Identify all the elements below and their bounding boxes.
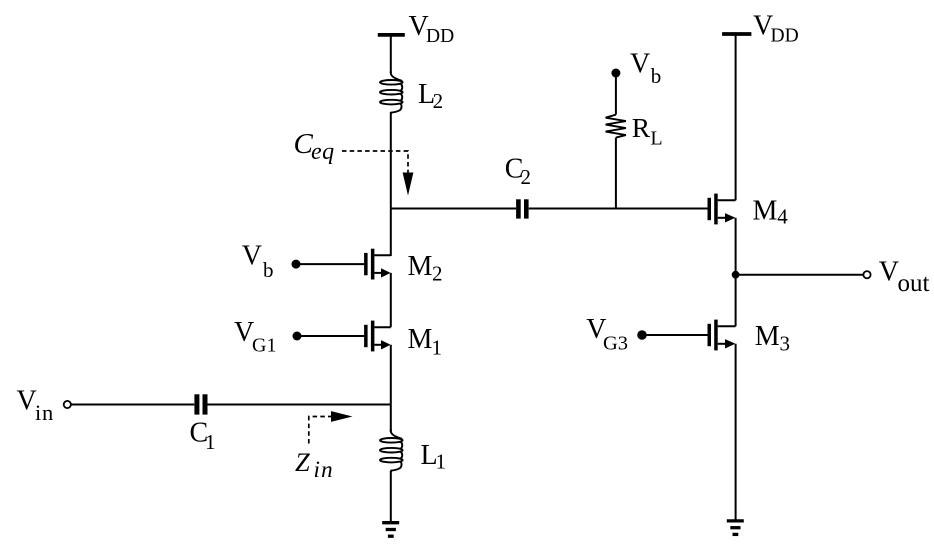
wire: [735, 275, 737, 327]
node Vout junction: [732, 271, 740, 279]
annotation arrow Ceq: [342, 151, 413, 196]
transistor M3: [642, 320, 736, 351]
svg-text:V: V: [242, 241, 262, 272]
wire: [529, 208, 708, 210]
wire: [735, 34, 737, 200]
annotation arrow Zin: [309, 411, 353, 443]
wire: [736, 274, 864, 276]
input terminal Vin: [64, 401, 71, 408]
wire: [390, 345, 392, 405]
svg-text:R: R: [632, 112, 651, 143]
capacitor C2: [516, 199, 529, 218]
svg-text:Z: Z: [295, 447, 310, 477]
wire: [735, 218, 737, 275]
wire: [390, 35, 392, 73]
node wire (main horizontal): [391, 208, 516, 210]
svg-text:DD: DD: [771, 26, 799, 47]
terminal dot Vb (RL top): [611, 69, 620, 78]
transistor M1: [297, 321, 391, 352]
svg-text:in: in: [314, 457, 334, 482]
svg-text:DD: DD: [426, 26, 454, 47]
svg-text:b: b: [263, 258, 274, 282]
wire: [71, 404, 194, 406]
svg-text:3: 3: [780, 332, 791, 356]
inductor L2: [380, 71, 403, 114]
ground (left): [382, 523, 399, 537]
wire: [390, 273, 392, 327]
terminal dot VG1: [293, 332, 302, 341]
transistor M4: [708, 194, 736, 225]
svg-text:1: 1: [205, 430, 216, 454]
output terminal Vout: [863, 271, 870, 278]
wire: [390, 112, 392, 256]
svg-text:V: V: [17, 386, 37, 417]
svg-text:1: 1: [436, 450, 447, 474]
svg-text:V: V: [630, 49, 650, 80]
wire: [390, 405, 392, 433]
svg-text:out: out: [898, 270, 930, 297]
svg-text:V: V: [879, 257, 899, 288]
inductor L1: [380, 429, 403, 472]
svg-text:M: M: [408, 324, 433, 355]
svg-text:in: in: [35, 400, 54, 425]
wire: [735, 344, 737, 520]
svg-text:M: M: [755, 321, 780, 352]
transistor M2: [296, 249, 391, 280]
wire: [208, 404, 391, 406]
svg-text:G3: G3: [603, 332, 628, 354]
resistor RL: [606, 73, 626, 209]
terminal dot Vb (M2 gate): [292, 260, 301, 269]
svg-text:2: 2: [433, 89, 444, 113]
terminal dot VG3: [637, 330, 647, 340]
svg-text:M: M: [408, 251, 433, 282]
wire: [390, 471, 392, 522]
svg-text:G1: G1: [252, 334, 276, 356]
power rail VDD (right): [722, 32, 751, 36]
svg-text:1: 1: [432, 336, 443, 360]
svg-text:2: 2: [432, 262, 443, 286]
power rail VDD (left): [378, 33, 405, 37]
capacitor C1: [194, 394, 207, 414]
ground (right): [727, 521, 744, 535]
svg-text:M: M: [753, 195, 778, 226]
svg-text:b: b: [651, 64, 662, 88]
svg-text:2: 2: [521, 165, 532, 189]
svg-text:4: 4: [777, 204, 788, 228]
svg-text:eq: eq: [311, 139, 335, 165]
svg-text:L: L: [650, 127, 662, 149]
